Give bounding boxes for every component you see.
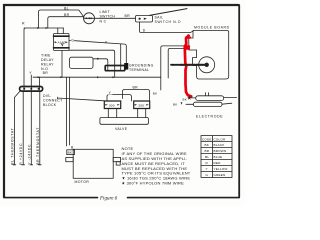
svg-text:BLACK: BLACK (214, 143, 226, 147)
svg-text:TIME: TIME (41, 54, 51, 58)
svg-text:BR: BR (133, 86, 139, 90)
svg-text:G: G (71, 39, 74, 43)
svg-text:N C: N C (100, 19, 107, 23)
wire: BR hump on valve (123, 90, 150, 102)
svg-text:ELECTRODE: ELECTRODE (196, 115, 223, 119)
svg-text:SWITCH: SWITCH (100, 14, 116, 18)
svg-text:CONNECT: CONNECT (43, 98, 63, 102)
svg-text:★ 300°F HYPOLON 7MM WIRE: ★ 300°F HYPOLON 7MM WIRE (122, 181, 185, 186)
color code table (201, 136, 232, 178)
svg-text:Y: Y (29, 71, 32, 75)
svg-text:DIS-: DIS- (43, 94, 52, 98)
svg-text:BR: BR (64, 13, 70, 17)
wire: upper board feed (161, 46, 185, 90)
limit switch LS1 (84, 13, 95, 24)
svg-text:CODE: CODE (202, 137, 212, 141)
wire: lower board feed (168, 48, 184, 78)
wire: BR down to disconnect (39, 77, 41, 90)
wire: Y hump on valve (107, 95, 131, 101)
svg-text:BR: BR (43, 71, 49, 75)
valve V1 (100, 101, 150, 124)
svg-text:BK: BK (205, 143, 210, 147)
svg-text:BL THERMOSTAT: BL THERMOSTAT (10, 128, 14, 165)
svg-text:COLOR: COLOR (214, 137, 226, 141)
wire: relay bottom down (61, 51, 63, 78)
wire: BR second rail (48, 17, 84, 28)
motor M1 (66, 149, 121, 178)
disconnect block TB1 (20, 87, 43, 92)
svg-text:BK: BK (183, 97, 188, 101)
wire: Y thermostat (30, 91, 33, 165)
svg-text:300: 300 (109, 103, 115, 107)
svg-text:SWITCH N.O: SWITCH N.O (155, 20, 182, 24)
wire: long horizontal y77.2 (33, 76, 161, 78)
terminal BK box (67, 150, 75, 155)
wire: BL top rail (39, 10, 85, 28)
svg-text:BLOCK: BLOCK (43, 103, 57, 107)
svg-text:Y: Y (206, 167, 208, 171)
svg-text:R: R (22, 22, 25, 26)
svg-text:BK: BK (173, 102, 178, 106)
svg-text:BR: BR (205, 149, 210, 153)
module board U1 (189, 31, 229, 80)
time delay relay K1 (54, 28, 70, 51)
svg-text:BL: BL (64, 7, 69, 11)
svg-text:Y: Y (105, 41, 108, 45)
border frame (4, 5, 239, 197)
junction arrows on y28 (37, 27, 48, 29)
svg-text:BL: BL (205, 155, 209, 159)
wire: redraw lead over red (180, 64, 207, 66)
svg-text:VALVE: VALVE (115, 127, 128, 131)
junction arrows on y77.2 (38, 76, 115, 78)
svg-text:G: G (206, 173, 209, 177)
svg-text:BROWN: BROWN (214, 149, 227, 153)
note text block (122, 146, 191, 185)
wire: red ignition cable (185, 36, 191, 97)
svg-text:DELAY: DELAY (41, 58, 54, 62)
svg-text:MOTOR: MOTOR (75, 180, 90, 184)
svg-text:RED: RED (214, 161, 222, 165)
wire: R thermostat (22, 91, 25, 165)
wire: motor feeders (67, 77, 70, 146)
svg-text:BK: BK (68, 151, 73, 155)
wire: BR thermostat (38, 91, 41, 165)
note pointer box (116, 162, 120, 165)
wire: Y to valve (58, 97, 105, 101)
bottom frame rule with Figure caption gap (4, 197, 239, 199)
svg-text:BK: BK (153, 92, 158, 96)
svg-text:YELLOW: YELLOW (214, 167, 228, 171)
svg-text:Figure 6: Figure 6 (99, 197, 118, 202)
svg-text:300: 300 (138, 103, 144, 107)
wire loop rectangle (70, 57, 94, 68)
svg-text:TERMINAL: TERMINAL (129, 68, 149, 72)
wire: limit switch to sail switch (95, 17, 136, 19)
svg-text:BR THERMOSTAT: BR THERMOSTAT (36, 127, 40, 165)
wire: Y down to disconnect (30, 75, 32, 91)
svg-text:Y -24VDC: Y -24VDC (27, 144, 31, 165)
wire: R horizontal run y28 (24, 28, 64, 90)
svg-text:RELAY: RELAY (41, 62, 54, 66)
node Y left (28, 69, 33, 75)
node Y valve (108, 90, 113, 95)
grounding terminal bar (69, 44, 125, 77)
sail switch S1 (136, 9, 188, 22)
svg-text:Y: Y (109, 91, 112, 95)
electrode assembly (186, 93, 237, 107)
svg-text:R +24VDC: R +24VDC (19, 143, 23, 165)
svg-text:BR: BR (125, 14, 131, 18)
wire: sail switch down and right to module board (140, 22, 194, 33)
grounding terminal lug (124, 63, 128, 70)
svg-text:D: D (143, 29, 146, 33)
wire: BL thermostat (13, 91, 20, 165)
svg-text:MODULE BOARD: MODULE BOARD (194, 26, 230, 30)
wire: relay to module area y40.5 (69, 41, 126, 64)
svg-text:GREEN: GREEN (214, 173, 226, 177)
wire: thick electrode lead (171, 64, 207, 66)
svg-text:BLUE: BLUE (214, 155, 223, 159)
spark terminal circle (199, 57, 215, 73)
